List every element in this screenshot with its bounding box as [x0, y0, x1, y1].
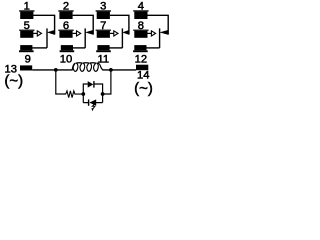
terminal pin 8 (NO) — [133, 20, 148, 38]
wire COM to arm — [146, 47, 159, 49]
terminal pin 12 (COM) — [133, 45, 148, 65]
svg-text:10: 10 — [60, 53, 72, 65]
moving contact arm — [159, 28, 161, 48]
coil L (relay coil) — [72, 63, 103, 72]
diode pair box wires — [83, 84, 88, 103]
junction node — [109, 68, 113, 72]
moving contact arm — [46, 28, 48, 48]
wire NC to contact — [33, 15, 54, 34]
wire coil to pin14 — [102, 69, 136, 71]
wire pin13 to coil — [32, 69, 72, 71]
NO contact open arrow — [148, 31, 156, 36]
terminal pin 11 (COM) — [96, 45, 111, 65]
svg-text:9: 9 — [25, 53, 31, 65]
wire NC to contact — [148, 15, 169, 34]
wire NC to contact — [73, 15, 94, 34]
svg-text:12: 12 — [135, 53, 147, 65]
wire COM to arm — [32, 47, 47, 49]
terminal pin 1 (NC) — [19, 1, 34, 19]
terminal pin 3 (NC) — [96, 1, 111, 19]
wire right branch up — [103, 70, 111, 94]
node left of diode pair — [81, 92, 85, 96]
terminal pin 5 (NO) — [19, 20, 34, 38]
wire COM to arm — [73, 47, 85, 49]
resistor R (indicator series resistor) — [66, 91, 84, 98]
moving contact arrow — [122, 30, 129, 35]
moving contact arm — [84, 28, 86, 48]
terminal pin 7 (NO) — [96, 20, 111, 38]
junction node — [54, 68, 58, 72]
terminal pin 9 (COM) — [19, 45, 34, 65]
moving contact arrow — [85, 30, 94, 35]
terminal pin 6 (NO) — [58, 20, 73, 38]
moving contact arrow — [47, 30, 55, 35]
svg-text:(~): (~) — [134, 80, 153, 97]
moving contact arm — [121, 28, 123, 48]
node right of diode pair — [101, 92, 105, 96]
terminal pin 4 (NC) — [133, 1, 148, 19]
terminal pin 10 (COM) — [60, 45, 75, 65]
NO contact open arrow — [73, 31, 81, 36]
terminal pin 2 (NC) — [58, 1, 73, 19]
diode D1 (protection diode) — [88, 81, 95, 88]
terminal pin 13 (coil) — [4, 63, 32, 75]
NO contact open arrow — [110, 31, 118, 36]
wire left branch down — [56, 70, 66, 94]
terminal pin 14 (coil) — [136, 65, 149, 82]
LED D2 (indicator) — [88, 99, 96, 105]
wire NC to contact — [110, 15, 129, 34]
svg-text:(~): (~) — [4, 72, 23, 89]
moving contact arrow — [159, 30, 168, 35]
wire COM to arm — [109, 47, 122, 49]
NO contact open arrow — [33, 31, 41, 36]
LED emission arrow — [91, 104, 95, 112]
